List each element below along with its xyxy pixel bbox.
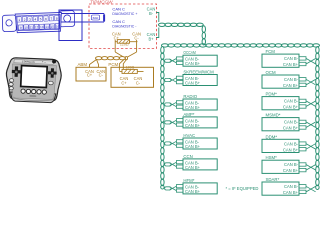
svg-text:CAN B-: CAN B- [284, 141, 299, 146]
scan tool (StarSCAN handheld) [5, 57, 62, 103]
svg-text:12: 12 [35, 25, 39, 29]
wire CAN B bus top (twisted pair) [161, 44, 319, 47]
wire CAN C- from TIPMCGW down [136, 40, 138, 52]
resistor diagnostic CAN C termination (vertical, blue) [103, 14, 105, 23]
module HVAC (CAN B) [165, 133, 218, 149]
svg-text:SKREEM/WCM: SKREEM/WCM [183, 70, 214, 75]
module FCM (CAN B) [262, 49, 316, 67]
wire CAN B+ stub [156, 28, 159, 38]
module AMP (CAN B) [165, 112, 218, 128]
svg-text:CAN B+: CAN B+ [283, 105, 299, 110]
svg-text:CAN B+: CAN B+ [185, 81, 201, 86]
svg-text:C-: C- [99, 73, 104, 78]
resistor R 120 ohm inside TIPMCGW [115, 40, 137, 44]
junction twisted pair CAN C [115, 52, 136, 57]
wire CAN C twisted pair bus (TIPMCGW to ABM and PCM) [96, 57, 128, 60]
svg-text:CAN B-: CAN B- [284, 56, 299, 61]
resistor 120 ohm inside PCM [119, 69, 143, 73]
svg-text:HVAC: HVAC [183, 133, 195, 138]
DLC pins 9-16 (bottom row) [18, 24, 59, 30]
svg-text:120Ω: 120Ω [120, 43, 129, 47]
module SDAR (CAN B) [262, 177, 316, 195]
wire CAN C+ from TIPMCGW down [114, 40, 116, 52]
svg-text:AMP*: AMP* [183, 112, 194, 117]
wire CAN B twisted pair (TIPMCGW to bus) [158, 23, 203, 26]
svg-text:C+: C+ [121, 80, 127, 85]
svg-text:OCM: OCM [266, 70, 277, 75]
module DDM (CAN B) [262, 134, 316, 152]
svg-text:CAN B+: CAN B+ [185, 165, 201, 170]
value label 60 ohm [91, 15, 99, 20]
svg-text:60Ω: 60Ω [93, 16, 99, 20]
module OCCAM (CAN B) [165, 50, 218, 66]
svg-text:PCM: PCM [108, 62, 118, 67]
svg-text:CAN B+: CAN B+ [283, 83, 299, 88]
wire CAN C drop to PCM [119, 59, 126, 71]
module CCN (CAN B) [165, 154, 218, 170]
wire CAN C diagnostic - (DLC pin 14 to TIPMCGW) [61, 21, 104, 23]
svg-text:CAN B+: CAN B+ [283, 62, 299, 67]
pin labels CAN C+ / CAN C- (PCM) [120, 76, 143, 85]
svg-text:C-: C- [134, 36, 139, 41]
svg-text:CAN B-: CAN B- [284, 120, 299, 125]
svg-text:CAN B+: CAN B+ [185, 105, 201, 110]
svg-text:OCCAM: OCCAM [183, 50, 196, 55]
module SKREEM/WCM (CAN B) [165, 70, 218, 86]
svg-text:+ –: + – [42, 60, 47, 64]
svg-text:DDM*: DDM* [266, 134, 278, 139]
svg-text:15: 15 [51, 25, 55, 29]
svg-text:FCM: FCM [266, 49, 276, 54]
wire CAN B- stub [156, 13, 159, 23]
svg-text:11: 11 [30, 25, 34, 29]
module PDM (CAN B) [262, 92, 316, 110]
svg-text:MSMD*: MSMD* [266, 113, 281, 118]
svg-text:HFM*: HFM* [183, 178, 194, 183]
svg-text:CAN B+: CAN B+ [283, 190, 299, 195]
svg-text:120Ω: 120Ω [125, 66, 134, 70]
svg-text:10: 10 [24, 26, 28, 30]
module PCM (powertrain control module) [108, 62, 153, 87]
svg-text:RADIO: RADIO [183, 94, 197, 99]
DLC pins 1-8 (top row) [17, 15, 59, 22]
connector DLC (data link connector) J1962 [2, 10, 75, 33]
svg-text:ABM: ABM [78, 62, 88, 67]
svg-text:TIPMCGW: TIPMCGW [90, 0, 114, 5]
wire CAN C fork to ABM pins [90, 60, 99, 68]
svg-text:CAN B+: CAN B+ [283, 147, 299, 152]
svg-text:SDAR*: SDAR* [266, 177, 280, 182]
module HFM (CAN B) [165, 178, 218, 194]
svg-text:CAN B+: CAN B+ [185, 189, 201, 194]
svg-text:CAN B+: CAN B+ [185, 144, 201, 149]
svg-text:DIAGNOSTIC -: DIAGNOSTIC - [112, 24, 137, 29]
wire CAN B bus right (twisted pair) [316, 47, 319, 190]
svg-text:C+: C+ [87, 73, 93, 78]
wire CAN C diagnostic + (DLC pin 6 to TIPMCGW) [61, 13, 104, 15]
svg-text:CAN B-: CAN B- [284, 162, 299, 167]
svg-text:PDM*: PDM* [266, 92, 278, 97]
wire CAN B twisted pair drop [202, 26, 205, 45]
svg-text:CAN B-: CAN B- [284, 77, 299, 82]
svg-text:* = IF EQUIPPED: * = IF EQUIPPED [226, 186, 259, 191]
svg-text:CAN B+: CAN B+ [185, 61, 201, 66]
svg-text:14: 14 [45, 25, 49, 29]
svg-text:DIAGNOSTIC +: DIAGNOSTIC + [112, 11, 138, 16]
svg-text:HSM*: HSM* [266, 155, 278, 160]
DLC cable housing box [59, 10, 82, 41]
svg-text:STARSCAN: STARSCAN [22, 60, 35, 64]
module RADIO (CAN B) [165, 94, 218, 110]
svg-text:CAN B+: CAN B+ [283, 168, 299, 173]
module MSMD (CAN B) [262, 113, 316, 131]
module HSM (CAN B) [262, 155, 316, 173]
module ABM (anti-lock brake module) [76, 62, 106, 81]
svg-text:C-: C- [136, 80, 141, 85]
module TIPMCGW (gateway, dashed outline) [89, 4, 157, 49]
svg-text:CAN B+: CAN B+ [283, 126, 299, 131]
svg-text:CAN B-: CAN B- [284, 99, 299, 104]
svg-text:13: 13 [40, 25, 44, 29]
svg-text:CAN B-: CAN B- [284, 184, 299, 189]
svg-text:CCN: CCN [183, 154, 192, 159]
wire CAN B bus left (twisted pair) [161, 47, 164, 190]
svg-text:B+: B+ [148, 36, 154, 41]
svg-text:B-: B- [149, 11, 154, 16]
module OCM (CAN B) [262, 70, 316, 88]
svg-text:CAN B+: CAN B+ [185, 123, 201, 128]
